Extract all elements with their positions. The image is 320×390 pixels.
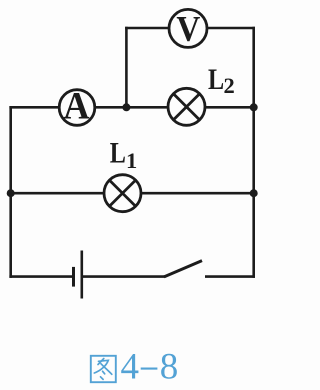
svg-text:4: 4 <box>121 347 140 388</box>
svg-text:8: 8 <box>160 347 179 388</box>
label L1 <box>110 136 137 173</box>
lamp L1 <box>104 175 141 212</box>
voltmeter V <box>169 9 207 49</box>
battery positive plate (long) <box>81 251 84 299</box>
junction node (L1 row right rail) <box>250 189 258 197</box>
switch lever <box>164 261 202 277</box>
wire row1 horizontal (ammeter and L2 row) <box>9 106 255 109</box>
wire right vertical <box>252 27 255 278</box>
svg-text:L: L <box>208 63 224 96</box>
svg-text:L: L <box>110 136 126 169</box>
svg-text:V: V <box>176 9 200 49</box>
svg-text:A: A <box>63 85 89 128</box>
caption character 图 <box>91 356 116 382</box>
junction node (L1 row left rail) <box>7 189 15 197</box>
svg-text:1: 1 <box>126 148 137 173</box>
wire bottom right segment <box>205 275 255 278</box>
wire left vertical <box>9 106 12 278</box>
wire bottom left segment <box>9 275 73 278</box>
wire row2 horizontal (L1 row) <box>9 192 255 195</box>
caption dash <box>141 368 158 370</box>
battery negative plate (short) <box>72 267 75 287</box>
wire bottom middle segment <box>82 275 165 278</box>
ammeter A <box>59 85 95 128</box>
junction node (L2 right / right rail) <box>250 103 258 111</box>
wire top horizontal (voltmeter branch) <box>125 27 255 30</box>
wire voltmeter-branch left vertical <box>125 27 128 108</box>
junction node (voltmeter branch left) <box>122 103 130 111</box>
svg-text:2: 2 <box>224 73 235 98</box>
label L2 <box>208 63 235 98</box>
lamp L2 <box>168 88 205 125</box>
